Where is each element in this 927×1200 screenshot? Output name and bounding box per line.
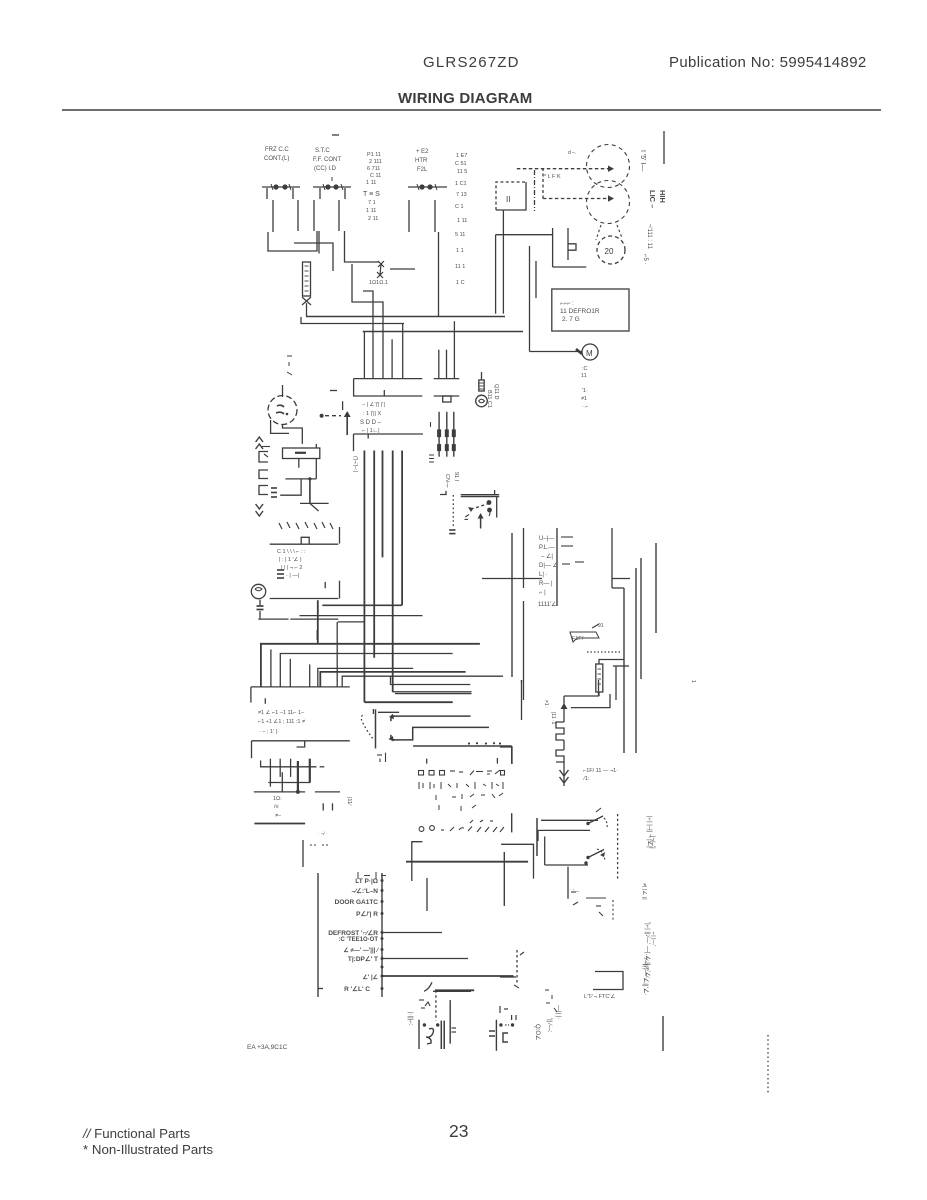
bottom wire left of label block (302, 840, 304, 867)
svg-text:HTR: HTR (415, 158, 428, 164)
svg-text:C 1: C 1 (455, 204, 464, 210)
svg-text:S D D –: S D D – (360, 420, 382, 426)
lamp wire (258, 618, 338, 620)
compressor box (552, 289, 629, 331)
dark wire y861 (406, 861, 528, 863)
connector label block (360, 401, 385, 434)
splice bars (271, 488, 277, 497)
relay top wire (378, 711, 399, 713)
lamp group B electrode (495, 1020, 497, 1051)
comb drop wire (281, 772, 283, 792)
svg-text:: 1 |'|| X: : 1 |'|| X (363, 411, 382, 417)
lamp group A top wire (435, 989, 474, 991)
svg-text:| | | ¬ ⌐ 2: | | | ¬ ⌐ 2 (281, 565, 302, 571)
switch SW2 (586, 849, 605, 861)
small marks left mid (287, 356, 292, 375)
small marks near dashed drop (514, 952, 524, 988)
pin list labels (538, 536, 558, 608)
control board right edge (511, 746, 513, 764)
wire parallel (495, 235, 497, 314)
wire from S1 pin1 (272, 200, 274, 232)
wire drop (615, 666, 617, 700)
svg-text:· ⌐: · ⌐ (582, 404, 589, 410)
capacitor lead 2 (315, 458, 317, 479)
wire door switch down (482, 578, 542, 580)
wire bend bottom left (500, 747, 512, 764)
defrost heater dashed ring upper (587, 145, 630, 188)
run capacitor body (283, 444, 320, 459)
wire right low (662, 1016, 664, 1051)
svg-text::C 'TEE1O·OT: :C 'TEE1O·OT (339, 937, 379, 943)
svg-text:LIC –: LIC – (648, 190, 657, 208)
wire drop d (391, 339, 393, 378)
relay tick (372, 709, 374, 714)
door switch arrow (478, 513, 484, 529)
svg-text:∠ ≠—' —'||| ⁄: ∠ ≠—' —'||| ⁄ (343, 947, 380, 954)
svg-text:⌐ | 1∟|: ⌐ | 1∟| (362, 428, 380, 434)
capacitor lead 1 (298, 459, 300, 468)
wire stub crossing (318, 231, 320, 254)
motor M1 label (581, 366, 589, 410)
svg-text::⁄–||⁄|—'∠||'∠·: :⁄–||⁄|—'∠||'∠· (642, 957, 650, 996)
svg-text:P1 11: P1 11 (367, 152, 381, 158)
svg-text:≠1: ≠1 (581, 396, 587, 402)
svg-text:6 711: 6 711 (367, 166, 380, 172)
wire top (541, 819, 598, 821)
stub dashes top (330, 390, 337, 392)
svg-text:F1F/: F1F/ (572, 636, 584, 642)
wire defrost power (382, 932, 442, 934)
note column text 1 (363, 152, 382, 222)
bus wire 4 bend double (393, 692, 472, 694)
ground bus line (254, 823, 305, 825)
svg-text:(CC) I.D: (CC) I.D (314, 166, 337, 172)
wire drop (537, 830, 539, 841)
wire fuse to bus (306, 303, 308, 317)
dashed border (617, 814, 619, 880)
wire y672 (320, 672, 465, 687)
long wire left col (511, 533, 513, 677)
long wire from S3 down (438, 232, 440, 317)
svg-text:Publication No: 5995414892: Publication No: 5995414892 (669, 54, 867, 71)
wire riser e (336, 622, 338, 687)
relay marks below (377, 753, 386, 762)
wire at far right top (663, 131, 665, 164)
open box (593, 972, 623, 990)
wire col 4 (623, 588, 625, 753)
dashed link marks (596, 225, 622, 240)
svg-text:L'T⁄ ¬ FTC'∠: L'T⁄ ¬ FTC'∠ (584, 993, 615, 1000)
svg-text:CN–⌐: CN–⌐ (444, 474, 450, 488)
strip drop wires (325, 581, 339, 599)
svg-text:20: 20 (605, 247, 614, 256)
wire drop h (453, 321, 455, 378)
heater label (273, 796, 282, 819)
splice mark (277, 570, 284, 578)
svg-text:T|:DP∠' T: T|:DP∠' T (348, 955, 378, 963)
wire from S1 pin2 (297, 200, 299, 231)
defrost heater dashed ring lower (587, 181, 630, 224)
svg-text:–⁄∠:'L–N: –⁄∠:'L–N (351, 887, 378, 895)
title rule (62, 109, 881, 111)
connector P3 lower line (252, 741, 350, 758)
svg-text:|·|||⌐:: |·|||⌐: (407, 1012, 413, 1026)
bus wire 5 bend (322, 604, 402, 606)
svg-text:L| ·: L| · (539, 572, 548, 578)
defrost heater dashed wire 2 (543, 195, 614, 201)
start device C1 (553, 228, 587, 267)
wire drop e (402, 324, 404, 379)
pin comb (260, 759, 324, 792)
svg-text:7 1: 7 1 (368, 200, 376, 206)
terminal bracket 3 (259, 486, 268, 495)
svg-text:('|¬'|–:|: ('|¬'|–:| (352, 456, 358, 472)
svg-text:// Functional Parts: // Functional Parts (82, 1126, 191, 1141)
wire col 2a (523, 528, 525, 588)
svg-text:1 11: 1 11 (366, 208, 376, 214)
svg-text:1 E7: 1 E7 (456, 153, 467, 159)
svg-text:D|— ∠: D|— ∠ (539, 562, 558, 569)
comb cross wire (268, 782, 310, 784)
wire drop b (352, 264, 383, 379)
svg-text:F2L: F2L (417, 167, 428, 173)
board stub pins (427, 758, 498, 764)
switch S2 contacts (313, 177, 351, 190)
lamp A right electrode (449, 1000, 451, 1044)
terminal dots (381, 879, 384, 990)
wire y653 horizontal (280, 654, 452, 687)
door switch dotted leg (452, 495, 454, 528)
switch S3 contacts (408, 184, 447, 190)
svg-text:CONT.(L): CONT.(L) (264, 156, 289, 162)
wire col 3 bend (612, 587, 624, 589)
evaporator fan motor M2 (268, 396, 297, 425)
svg-text:23: 23 (449, 1121, 468, 1141)
svg-text:⌐⌐⌐ :: ⌐⌐⌐ : (560, 301, 574, 307)
lamp B bracket (503, 1033, 508, 1042)
connector P3 pin line (251, 687, 350, 704)
svg-text:1 C: 1 C (456, 280, 465, 286)
svg-text:DEFROST '⌐⁄∠R: DEFROST '⌐⁄∠R (328, 929, 378, 937)
svg-text:1: 1 (690, 680, 696, 683)
lamp B dots (499, 1023, 514, 1026)
defrost heater dashed wire 1 (517, 166, 614, 172)
svg-text:C 51: C 51 (455, 161, 467, 167)
relay contact X pair (377, 261, 384, 278)
condenser fan motor M1 wire (530, 246, 583, 352)
connector pin column (556, 528, 558, 606)
svg-text:– ∠|: – ∠| (541, 553, 553, 560)
svg-text:M: M (586, 349, 593, 358)
svg-text:'1·: '1· (582, 388, 588, 394)
note column text 2 (455, 153, 467, 286)
wire segment y702 right part (521, 680, 523, 683)
svg-text:11 1: 11 1 (455, 264, 465, 270)
svg-text:FRZ C.C: FRZ C.C (265, 147, 289, 153)
svg-text:¬'111 : 11: ¬'111 : 11 (646, 224, 652, 250)
wire from x317 lower (316, 630, 318, 640)
svg-text:'|| ⁄—:: '|| ⁄—: (546, 1018, 552, 1033)
svg-text:· ¬/ ·: · ¬/ · (318, 831, 327, 836)
dashed drop mid (516, 950, 518, 983)
contact arrow wire 2 (389, 727, 490, 741)
svg-text:⌐ |: ⌐ | (539, 590, 546, 596)
wire from motor bottom (283, 425, 303, 444)
svg-text:HIH: HIH (658, 190, 667, 203)
svg-text:1 11: 1 11 (366, 180, 376, 186)
wire from S2 to relay (345, 231, 379, 262)
DIP contact row (419, 770, 505, 775)
dot-dash jumper (320, 414, 341, 418)
tick marks left of switch (465, 515, 470, 520)
door switch bar (461, 490, 500, 518)
svg-text:2. 7 G: 2. 7 G (562, 316, 580, 323)
svg-text:DOOR GA1TC: DOOR GA1TC (335, 899, 379, 906)
wire mid stub (338, 621, 365, 623)
small text right of meander (690, 680, 696, 683)
label block right rail (381, 873, 383, 997)
tick marks (262, 447, 270, 458)
lamp L1 label (486, 384, 499, 408)
wire drop x504 (503, 852, 505, 906)
svg-text:⌐| |—': ⌐| |—' (650, 932, 656, 946)
svg-text:P∠/'| R: P∠/'| R (356, 910, 378, 918)
long bus y643 (261, 644, 480, 687)
svg-text:1Ω1Ω.1: 1Ω1Ω.1 (369, 280, 388, 286)
svg-text:d –.: d –. (568, 150, 576, 156)
terminal bracket 2 (259, 470, 268, 479)
dotted wire far right (767, 1035, 769, 1095)
svg-text:5 11: 5 11 (455, 232, 465, 238)
lamp B pins (505, 1015, 516, 1025)
svg-text:GLRS267ZD: GLRS267ZD (423, 54, 520, 71)
stub pins right (323, 803, 332, 810)
svg-text:C 1 \ \ \ ⌐ : :: C 1 \ \ \ ⌐ : : (277, 549, 306, 555)
wire left bend to bus2 (301, 317, 404, 324)
svg-text:* L F K: * L F K (544, 174, 561, 180)
svg-text:WIRING DIAGRAM: WIRING DIAGRAM (398, 90, 532, 107)
svg-text:: · | —|: : · | —| (283, 573, 299, 579)
dotted wire (587, 651, 622, 653)
control board top edge (413, 745, 512, 747)
relay box U1 (496, 182, 526, 210)
svg-text:F.F. CONT: F.F. CONT (313, 157, 341, 163)
main bus y316 (306, 316, 505, 318)
contact arrow wire 1 (389, 714, 471, 721)
rotated text column right (644, 922, 656, 979)
svg-text:11 DEFRO1R: 11 DEFRO1R (560, 308, 600, 315)
feedback loop (545, 837, 588, 866)
wire y684 (391, 676, 471, 684)
wire U-link under S1 (268, 231, 317, 251)
door switch actuator dashes (468, 500, 492, 516)
bus wire 4 (392, 451, 394, 693)
connector J1 body (354, 379, 423, 396)
svg-text:⌐1 ÷1 ∠1 ; 111 :1 ≠: ⌐1 ÷1 ∠1 ; 111 :1 ≠ (258, 718, 305, 725)
wire col 6 (640, 558, 642, 679)
svg-text:C 11: C 11 (370, 173, 381, 179)
svg-text:| : | 1 '∠ |: | : | 1 '∠ | (279, 556, 302, 563)
bus wire 5 (401, 451, 403, 606)
svg-text:U–|—: U–|— (539, 536, 554, 542)
board corner bracket (412, 842, 423, 881)
wire drop f (438, 350, 440, 379)
wire y668 (318, 668, 413, 687)
scatter marks top right of lamp B (545, 990, 557, 1012)
wire riser d (309, 664, 311, 687)
switch S1 stub right (292, 188, 294, 199)
svg-text:R '∠L' C: R '∠L' C (344, 985, 370, 993)
heater side label (543, 700, 556, 725)
wire from S2 pin1 (313, 200, 315, 231)
svg-text:* Non-Illustrated Parts: * Non-Illustrated Parts (83, 1142, 213, 1157)
bus wire 3 (382, 451, 384, 558)
wire into fan motor (282, 385, 284, 397)
resistor R1 (596, 664, 603, 692)
thermal fuse body (303, 262, 311, 296)
freezer lamp L2 (251, 584, 265, 619)
svg-text:/≡: /≡ (274, 804, 279, 810)
bus wire 1 (363, 451, 365, 703)
jumper arrow post (344, 411, 351, 435)
wire from relay box down (502, 210, 504, 314)
svg-text:11: 11 (581, 373, 587, 379)
svg-text::C: :C (582, 366, 588, 372)
wire y676 (342, 676, 503, 687)
svg-text:91 I: 91 I (453, 472, 459, 482)
bus wire 1 bend (364, 701, 452, 703)
scattered marks (436, 793, 503, 811)
wire col 5 (635, 568, 637, 753)
svg-text:1Ω:: 1Ω: (273, 796, 282, 802)
svg-text:Q:O∠: Q:O∠ (534, 1024, 541, 1040)
wire top (564, 680, 599, 696)
board corner bottom right (501, 844, 533, 878)
wire bend to resistor (599, 660, 624, 665)
svg-text:|¬|–'|: |¬|–'| (649, 836, 655, 849)
wire drop x427 (426, 878, 428, 911)
wire left leg (521, 680, 523, 720)
label rows (328, 878, 380, 993)
wire riser c (289, 659, 291, 687)
svg-text:EA +3A,9C1C: EA +3A,9C1C (247, 1044, 288, 1051)
wire drop a (363, 332, 365, 379)
connector P3 labels (258, 709, 305, 735)
svg-text:I '5' I—: I '5' I— (639, 150, 646, 171)
svg-text:—|| |·: —|| |· (555, 1005, 561, 1019)
wire relay to start device (496, 234, 553, 236)
wire col 3 stub (612, 578, 630, 580)
switch S2 stub left (319, 188, 321, 199)
wire link under S1/S2 (294, 243, 333, 271)
wire col 2b (523, 601, 525, 700)
lamp L1 (dispenser light) (476, 372, 488, 407)
wire col 3 (611, 528, 613, 588)
lamp A dashed drop (435, 990, 437, 1020)
bus wire 2 (373, 451, 375, 658)
terminal strip TB1 line (270, 527, 340, 544)
label block left rail (317, 873, 319, 997)
svg-text:≠–: ≠– (275, 813, 282, 819)
label line above buses (354, 434, 423, 451)
corner mark (440, 491, 446, 495)
svg-text:7 13: 7 13 (456, 192, 467, 198)
svg-text:Q11 D: Q11 D (493, 384, 499, 400)
switch S1 contacts (262, 184, 300, 190)
svg-text:II: II (506, 195, 510, 204)
svg-text:2 111: 2 111 (369, 159, 382, 165)
icemaker label column (646, 816, 653, 848)
splice marks (429, 422, 434, 462)
terminal number row (279, 522, 333, 529)
wire stub (500, 976, 516, 978)
svg-text:⌐1F/ 11 — ¬1·: ⌐1F/ 11 — ¬1· (583, 768, 618, 774)
relay actuator dashed arc (361, 715, 374, 740)
lamp A contact dots (423, 1023, 440, 1026)
thermal fuse X terminal (302, 297, 311, 305)
dashes near 303 (310, 844, 330, 846)
ground wire (309, 479, 311, 504)
wire from relay to right (390, 268, 415, 270)
switch SW1 (586, 808, 607, 828)
wire from S2 pin2 (338, 200, 340, 231)
switch S2 stub right (344, 188, 346, 199)
short wire (613, 665, 629, 667)
meander arrows down (560, 770, 569, 783)
rotated text column right upper (641, 883, 648, 900)
lamp B labels rotated (534, 1005, 561, 1040)
wire vertical (536, 818, 538, 856)
meander arrow up (561, 703, 568, 709)
wire from S3 pin2 (434, 200, 436, 232)
svg-text:1 C1: 1 C1 (455, 181, 467, 187)
defrost water tube marks (571, 892, 613, 922)
connector J2 body (434, 379, 460, 402)
svg-text:2 11: 2 11 (368, 216, 378, 222)
svg-text:|11 ·1: |11 ·1 (550, 712, 556, 725)
door switch base marks (449, 530, 455, 534)
wire second (538, 829, 590, 831)
wire top 2 (571, 694, 610, 708)
harness label (444, 472, 459, 488)
fuse symbol (570, 623, 604, 642)
heater label (582, 768, 618, 782)
pin dashes right (561, 537, 584, 564)
chevron connector up (256, 437, 263, 449)
svg-text:|11⁄: |11⁄ (346, 797, 352, 806)
harness splice wires (439, 412, 454, 457)
wire long (382, 975, 514, 977)
ground symbol (300, 503, 329, 511)
condenser fan motor M1 (576, 344, 598, 360)
DIP dash row 2 (419, 782, 503, 789)
lamp A filament (426, 1029, 434, 1045)
lamp A electrode left (418, 1020, 420, 1049)
legend small marks bottom (358, 872, 386, 879)
svg-text:1 1: 1 1 (456, 248, 464, 254)
wire drop c (363, 291, 373, 379)
board right lower edge (511, 813, 513, 832)
wire from motor left (271, 420, 289, 433)
svg-text:P.L.—: P.L.— (539, 545, 555, 551)
switch S1 stub left (266, 188, 268, 199)
dots above edge (468, 742, 501, 745)
svg-text:– | ∠'|'| |'|: – | ∠'|'| |'| (362, 401, 385, 408)
right bus (655, 543, 657, 633)
terminal bracket 1 (259, 452, 268, 463)
svg-text:1 11: 1 11 (457, 218, 467, 224)
svg-text:LT P·|Ω: LT P·|Ω (355, 878, 378, 885)
